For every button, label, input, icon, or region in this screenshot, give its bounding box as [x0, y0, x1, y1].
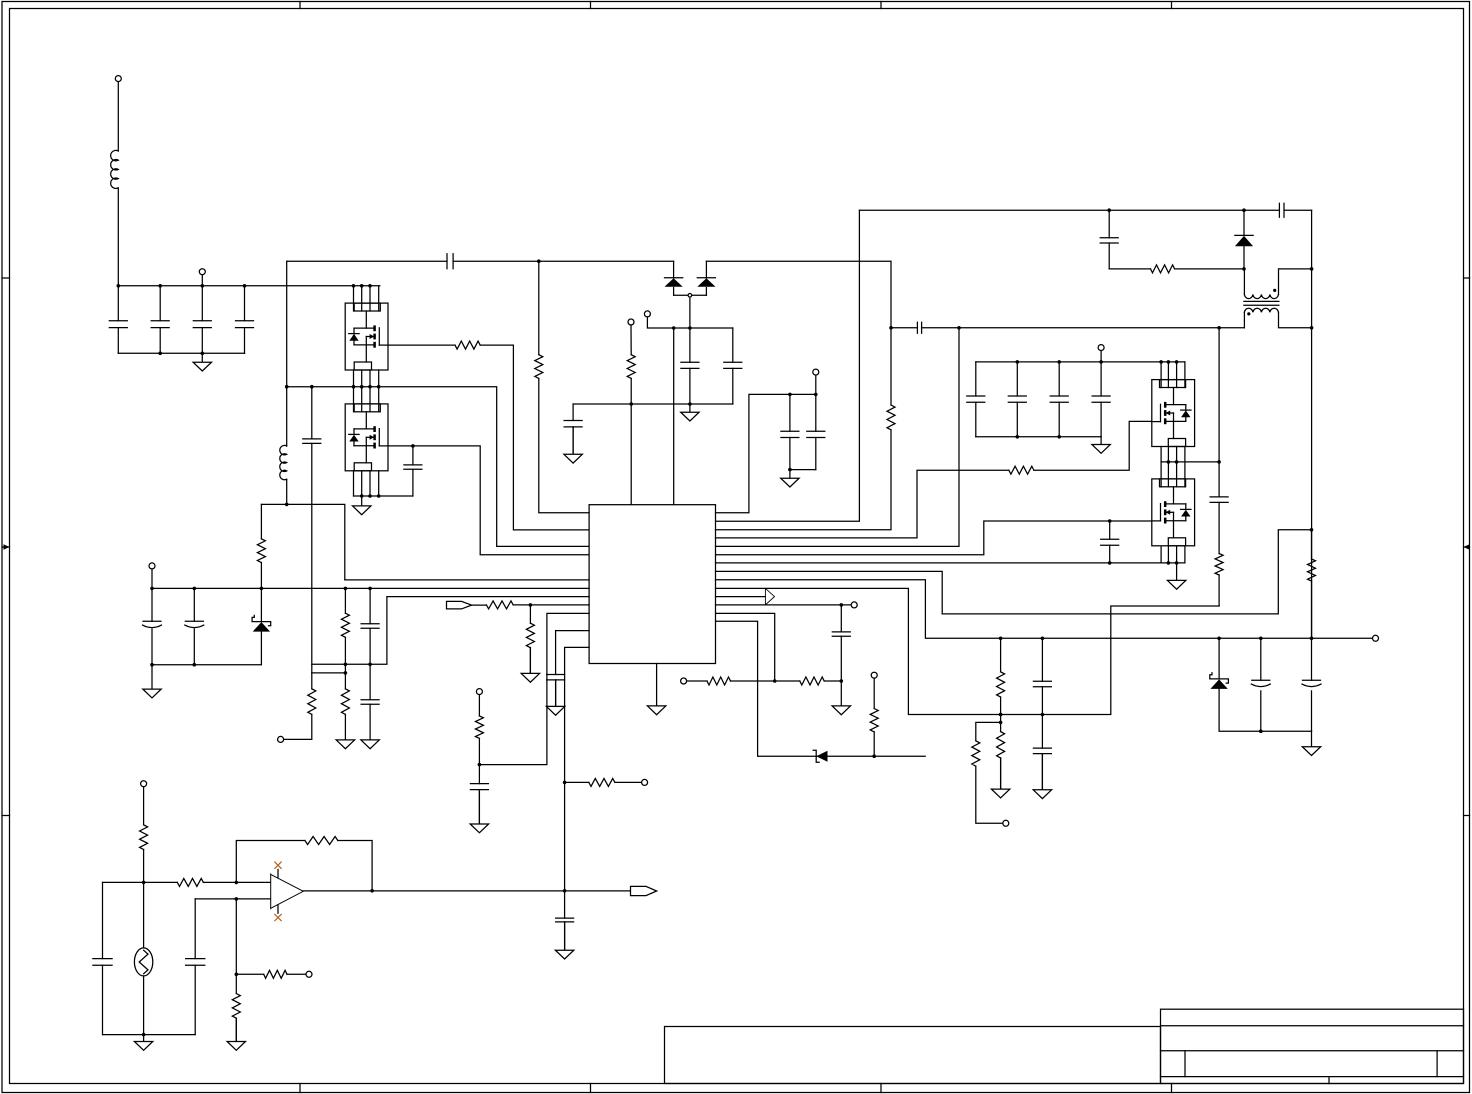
zener diode D5: [252, 615, 271, 631]
terminal P2: [199, 269, 205, 275]
junction phase bus: [310, 385, 381, 389]
wire C16 legs: [1058, 362, 1060, 437]
ground GND21: [227, 1018, 245, 1050]
wire C30 legs: [102, 882, 104, 1034]
wire R5 chain: [344, 588, 346, 688]
wire R19 link: [976, 722, 1003, 823]
wire p0 caps net: [716, 394, 816, 512]
junction sec bus: [1016, 360, 1179, 364]
wire VIN bus: [118, 285, 380, 287]
terminal P1: [115, 76, 121, 82]
ground GND13: [647, 664, 665, 715]
ground GND17: [1033, 754, 1051, 799]
wire C15 legs: [1016, 362, 1018, 437]
capacitor C30: [93, 959, 112, 966]
ERC marker X bottom: [275, 914, 281, 920]
wire in+ line: [103, 881, 271, 883]
wire p1 to top rail: [716, 210, 860, 521]
wire VCC long line: [152, 587, 589, 589]
terminal P6: [278, 736, 284, 742]
op-amp U3 power stubs: [277, 870, 279, 914]
capacitor C10: [564, 421, 582, 427]
wire IC top feed 2: [673, 328, 675, 505]
wire C18 legs: [1109, 521, 1111, 563]
wire C8 legs: [689, 328, 691, 404]
wire Q2 source bus: [354, 495, 413, 497]
wire p10 stub: [716, 596, 766, 598]
wire port wire: [472, 604, 589, 606]
wire C3 legs: [201, 286, 203, 354]
resistor R13: [1009, 466, 1034, 474]
ground GND15: [470, 790, 488, 833]
junction R11 node: [478, 763, 482, 767]
ground GND16: [991, 758, 1009, 798]
terminal P15: [1003, 820, 1009, 826]
junction in- line: [235, 897, 239, 901]
junction sense link: [344, 671, 348, 675]
diode D2: [697, 278, 715, 287]
terminal P17: [141, 781, 147, 787]
wire R10 wire: [565, 781, 642, 783]
wire p13 zener line: [716, 621, 926, 756]
capacitor C23 (polarized): [143, 621, 162, 627]
resistor R10: [589, 778, 615, 786]
capacitor C18: [1101, 539, 1119, 545]
junction bottom rail: [142, 1033, 146, 1037]
terminal P14: [681, 678, 687, 684]
wire C6 leg: [311, 387, 313, 439]
junction p0 caps net: [788, 393, 817, 397]
junction sec mid bus: [1167, 460, 1221, 464]
wire soft-start: [479, 613, 589, 764]
resistor R15: [707, 677, 731, 685]
wire p12 down: [716, 613, 775, 681]
ground GND2: [353, 496, 371, 515]
junction sec rail: [1016, 435, 1061, 439]
wire boost rail: [287, 260, 674, 262]
wire D1 stem: [673, 261, 675, 295]
resistor R20: [1151, 265, 1175, 273]
wire T1 primary legs: [1244, 269, 1311, 295]
wire switch node riser: [286, 261, 288, 504]
capacitor C20: [1279, 203, 1284, 217]
junction port wire: [529, 603, 533, 607]
resistor R12: [887, 405, 895, 430]
wire P17 chain: [143, 787, 145, 883]
ground GND1: [193, 353, 211, 371]
wire D3 stems: [1243, 210, 1245, 269]
junction in+ line: [142, 881, 238, 885]
title block right box: [1161, 1009, 1464, 1083]
wire p3 gate upper: [716, 421, 1152, 538]
terminal P7: [149, 563, 155, 569]
ground GND4: [681, 404, 699, 421]
wire P2 stem: [201, 275, 203, 286]
wire Q1 bottom pins: [354, 370, 379, 387]
capacitor C4: [236, 321, 254, 328]
capacitor C19: [1210, 497, 1228, 503]
resistor R26: [264, 970, 287, 978]
wire snub line: [1109, 268, 1244, 270]
wire R22 chain: [1311, 530, 1313, 639]
wire sense return: [312, 597, 589, 665]
capacitor C34: [1033, 681, 1051, 687]
wire R3 stems: [630, 325, 632, 505]
junction vout riser: [1310, 267, 1314, 330]
wire winding line: [891, 327, 1244, 329]
wire C24 legs: [193, 588, 195, 664]
wire Q1 top pins: [354, 286, 379, 311]
junction ref chain: [773, 679, 843, 683]
wire filter bottom rail: [118, 352, 244, 354]
wire C6 lower leg: [311, 443, 313, 673]
terminal P11: [1373, 635, 1379, 641]
wire p7 out sense: [716, 530, 1312, 614]
transformer T1: [1244, 289, 1279, 316]
resistor R21: [1215, 554, 1223, 576]
wire ref res chain: [687, 680, 842, 682]
resistor R11: [475, 716, 483, 739]
wire C9 legs: [732, 328, 734, 404]
capacitor C22: [1100, 238, 1118, 243]
wire feedback: [236, 841, 372, 891]
capacitor C9: [724, 362, 742, 368]
junction Q2 source bus: [360, 494, 381, 498]
junction p11 ref out: [840, 603, 844, 607]
wire aux rail: [647, 317, 732, 328]
wire p4 winding: [716, 328, 960, 547]
capacitor C5: [447, 254, 453, 269]
ground GND5: [781, 470, 799, 487]
junction p13 zener line: [872, 754, 876, 758]
capacitor C13: [917, 322, 921, 333]
wire P3 drop: [689, 298, 691, 328]
wire C7 legs: [412, 446, 414, 496]
capacitor C11: [781, 431, 799, 437]
junction p6 pgnd: [1108, 561, 1179, 565]
wire p5 gate lower: [716, 521, 1152, 555]
wire C27 legs: [840, 605, 842, 681]
wire p6 pgnd: [716, 562, 1184, 564]
wire thermistor stems: [143, 882, 145, 1034]
junction out filter: [1259, 729, 1263, 733]
junction switch node riser: [285, 385, 289, 506]
diode D1: [665, 278, 683, 287]
capacitor C33: [361, 700, 379, 705]
transistor Q2 (MOSFET half-bridge module): [345, 404, 388, 471]
wire opamp out: [303, 890, 630, 892]
wire sense link: [312, 672, 346, 674]
resistor R4: [535, 355, 543, 379]
resistor R14: [870, 709, 878, 732]
wire P16 stem: [1100, 351, 1102, 362]
wire p11 ref out: [716, 604, 852, 606]
capacitor C28: [547, 675, 565, 680]
terminal P5: [628, 319, 634, 325]
wire R26 wire: [236, 973, 306, 975]
wire C22 legs: [1108, 210, 1110, 269]
border right arrow marker: [1464, 544, 1470, 550]
wire Q1 gate wire: [388, 345, 589, 530]
junction caps bottom link: [788, 468, 792, 472]
capacitor C2: [151, 321, 169, 328]
wire Q2 top pins: [354, 387, 379, 412]
ground GND8: [143, 665, 161, 698]
wire p2 boost fb: [716, 261, 892, 530]
resistor R18: [997, 732, 1005, 758]
wire D2 stem: [705, 261, 707, 295]
junction opamp out: [370, 889, 374, 893]
wire Q4 top pins: [1161, 462, 1185, 487]
thermistor RT1: [134, 948, 152, 976]
junction filter rail: [158, 352, 204, 356]
wire R7 tail: [281, 673, 312, 740]
buffer U2 (driver symbol): [765, 588, 774, 605]
resistor R3: [627, 355, 635, 379]
capacitor C27: [832, 632, 850, 636]
wire Q3 top pins: [1161, 362, 1185, 388]
ground GND9: [336, 714, 354, 748]
junction R17 chain: [999, 713, 1003, 725]
capacitor C1: [109, 321, 127, 328]
wire p8 vout line: [716, 580, 1373, 639]
capacitor C8: [681, 362, 699, 368]
junction sense return: [344, 663, 372, 667]
resistor R6: [341, 689, 349, 715]
resistor R5: [341, 613, 349, 637]
junction divider mid: [235, 973, 239, 977]
junction winding line: [957, 326, 1221, 330]
port PORT1 (input flag): [447, 601, 472, 609]
junction p5 gate lower: [1108, 519, 1112, 523]
inductor L1: [111, 150, 119, 188]
wire C17 legs: [1100, 362, 1102, 437]
junction snub line: [1242, 267, 1246, 271]
terminal P12: [851, 602, 857, 608]
resistor R25: [305, 837, 338, 845]
zener diode D7: [1210, 673, 1229, 689]
wire C12 legs: [815, 394, 817, 469]
wire sec rail: [976, 436, 1101, 438]
wire Q4 bottom pins: [1161, 547, 1185, 563]
capacitor C15: [1008, 396, 1026, 402]
wire R17 chain: [1000, 638, 1002, 789]
resistor R16: [800, 677, 824, 685]
wire C32 chain: [369, 588, 371, 740]
resistor R27: [232, 994, 240, 1019]
ground GND11: [521, 648, 539, 683]
junction boost rail: [537, 259, 541, 263]
wire C23 legs: [151, 588, 153, 664]
border left arrow marker: [2, 544, 10, 550]
wire R9 stems: [529, 605, 531, 674]
junction VIN bus: [117, 284, 372, 288]
wire C31 legs: [194, 899, 196, 1035]
capacitor C16: [1050, 396, 1068, 402]
ground GND12: [546, 680, 564, 715]
junction p2 node: [889, 326, 893, 330]
resistor R1: [257, 539, 265, 563]
resistor R24: [177, 878, 203, 886]
capacitor C25 (polarized): [1251, 680, 1270, 686]
capacitor C29: [556, 918, 574, 922]
ground GND14: [832, 681, 850, 715]
ground GND20: [134, 1035, 152, 1051]
inductor L2: [280, 445, 287, 479]
wire C26 legs: [1311, 638, 1313, 731]
wire bottom rail: [103, 1034, 196, 1036]
wire R1 stem: [260, 504, 262, 588]
capacitor C24 (polarized): [185, 621, 204, 627]
wire P7 stem: [151, 569, 153, 589]
wire fb divider: [565, 647, 590, 950]
wire Q3 bottom pins: [1161, 447, 1185, 462]
title block left box: [665, 1027, 1161, 1084]
ground GND3: [564, 427, 582, 463]
resistor R23: [140, 825, 148, 850]
wire P10 stem: [815, 375, 817, 394]
junction top right rail: [1107, 208, 1245, 212]
junction Q2 gate wire: [411, 444, 415, 448]
wire sec bus: [976, 361, 1185, 363]
terminal P16: [1098, 345, 1104, 351]
wire Q2 bottom pins: [354, 471, 379, 496]
wire diode anode bus: [674, 294, 707, 296]
ground GND7: [1167, 563, 1185, 589]
terminal P13: [871, 672, 877, 678]
wire aux bottom rail: [573, 403, 733, 405]
wire C34 chain: [1041, 638, 1043, 790]
wire snub chain: [1218, 328, 1220, 606]
transistor Q1 (MOSFET half-bridge module): [345, 303, 388, 370]
port PORT2 (output flag): [631, 886, 657, 895]
resistor R8: [486, 601, 513, 609]
resistor R2: [455, 341, 480, 349]
capacitor C7: [404, 465, 422, 469]
wire C2 legs: [159, 286, 161, 354]
junction VCC long line: [150, 587, 372, 591]
junction p7 node: [1310, 528, 1314, 532]
wire low rail: [152, 664, 261, 666]
ground GND6: [1092, 437, 1110, 454]
resistor R19: [972, 741, 980, 766]
junction aux bottom rail: [629, 402, 691, 406]
wire caps bottom link: [790, 469, 816, 471]
ground GND19: [555, 922, 573, 959]
wire T1 secondary legs: [1244, 312, 1311, 328]
junction aux rail: [672, 326, 692, 330]
wire C4 legs: [244, 286, 246, 354]
zener diode D6: [813, 750, 827, 762]
wire vout riser: [1311, 210, 1313, 638]
wire C10 legs: [572, 404, 574, 454]
capacitor C17: [1092, 396, 1110, 402]
wire in- line: [195, 898, 270, 900]
capacitor C3: [193, 321, 211, 328]
wire Q2 gate wire: [388, 446, 589, 555]
capacitor C35: [1033, 748, 1051, 754]
resistor R7: [308, 689, 316, 715]
wire VIN: [117, 82, 119, 286]
wire C25 legs: [1260, 638, 1262, 731]
terminal P9: [476, 689, 482, 695]
wire D7 stems: [1219, 638, 1311, 731]
wire p9 mid sense: [716, 588, 1220, 714]
wire VREF feed: [539, 261, 589, 513]
wire snubber feed pin: [345, 579, 589, 581]
ERC marker X top: [275, 862, 281, 868]
terminal P3: [688, 294, 692, 298]
junction low rail: [150, 663, 196, 667]
wire sec mid bus: [1161, 461, 1219, 463]
capacitor C12: [807, 431, 825, 437]
transistor Q3 (MOSFET half-bridge module): [1152, 380, 1195, 447]
wire divider mid: [235, 899, 237, 974]
wire comp: [556, 631, 590, 707]
op-amp U3: [271, 874, 304, 909]
capacitor C26 (polarized): [1302, 680, 1321, 686]
IC U1 (power supply controller): [589, 505, 715, 664]
transistor Q4 (MOSFET half-bridge module): [1152, 479, 1195, 546]
wire R14 chain: [873, 678, 875, 756]
wire R27 stems: [235, 974, 237, 1041]
ground GND10: [361, 740, 379, 749]
junction p8 vout line: [999, 637, 1313, 641]
wire phase bus: [287, 387, 589, 547]
wire C1 legs: [117, 286, 119, 354]
junction p9 mid sense: [999, 713, 1044, 717]
ground GND18: [1302, 731, 1320, 755]
capacitor C6: [303, 439, 321, 444]
capacitor C14: [967, 396, 985, 402]
wire top right rail: [859, 209, 1311, 211]
wire C14 legs: [975, 362, 977, 437]
capacitor C36: [470, 784, 488, 790]
resistor R9: [526, 623, 534, 647]
resistor R22: [1308, 559, 1316, 581]
junction fb divider: [563, 781, 567, 893]
wire R11 chain: [478, 695, 480, 824]
wire snubber top: [261, 504, 344, 580]
capacitor C32: [361, 624, 379, 628]
terminal P18: [306, 971, 312, 977]
terminal P8: [642, 779, 648, 785]
capacitor C31: [186, 959, 205, 966]
wire C11 legs: [789, 394, 791, 469]
resistor R17: [997, 672, 1005, 697]
diode D3: [1235, 235, 1253, 246]
wire D5 stems: [260, 588, 262, 664]
wire D2 rail: [706, 260, 890, 262]
terminal P4: [644, 311, 650, 317]
terminal P10: [813, 369, 819, 375]
